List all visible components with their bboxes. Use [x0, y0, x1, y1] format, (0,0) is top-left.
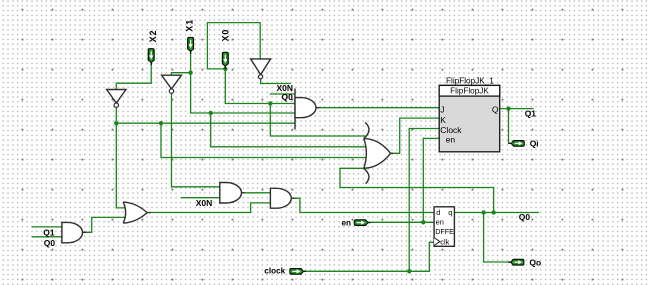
- svg-text:clock: clock: [264, 267, 285, 276]
- svg-text:Qi: Qi: [530, 139, 539, 149]
- svg-text:DFFE: DFFE: [435, 227, 454, 236]
- svg-text:FlipFlopJK_1: FlipFlopJK_1: [446, 77, 494, 86]
- svg-text:X0N: X0N: [196, 198, 213, 208]
- svg-text:J: J: [440, 105, 444, 115]
- svg-text:X2: X2: [148, 30, 158, 43]
- svg-text:X0: X0: [221, 29, 231, 42]
- svg-text:Q: Q: [492, 105, 499, 115]
- svg-text:q: q: [448, 208, 452, 217]
- svg-text:X1: X1: [185, 19, 195, 32]
- svg-text:en: en: [446, 134, 456, 144]
- svg-text:d: d: [436, 208, 440, 217]
- svg-text:FlipFlopJK: FlipFlopJK: [450, 86, 489, 95]
- svg-text:K: K: [440, 115, 446, 125]
- svg-text:en: en: [436, 218, 444, 227]
- svg-text:Qo: Qo: [529, 257, 541, 267]
- svg-text:Q0: Q0: [282, 92, 294, 102]
- svg-text:Q0: Q0: [44, 238, 56, 248]
- svg-text:clk: clk: [440, 237, 449, 246]
- svg-text:Q1: Q1: [525, 109, 537, 119]
- svg-text:Q0: Q0: [519, 212, 531, 222]
- svg-text:Q1: Q1: [43, 227, 55, 237]
- svg-text:en: en: [342, 219, 352, 228]
